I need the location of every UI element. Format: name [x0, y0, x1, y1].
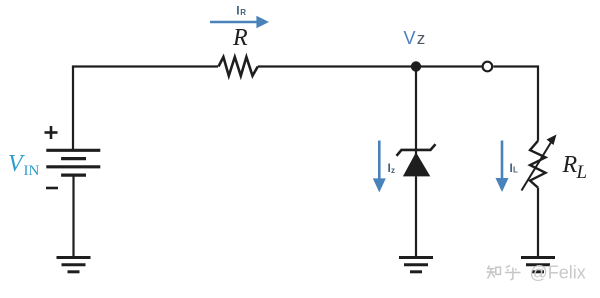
svg-text:R: R [562, 152, 578, 178]
svg-text:V: V [404, 28, 416, 48]
svg-text:I: I [236, 4, 239, 18]
svg-text:L: L [513, 165, 518, 174]
svg-text:@Felix: @Felix [530, 263, 586, 283]
svg-text:L: L [576, 162, 588, 183]
svg-text:R: R [240, 8, 246, 17]
svg-text:V: V [8, 151, 25, 177]
svg-text:IN: IN [24, 163, 40, 179]
svg-text:R: R [232, 25, 248, 51]
svg-text:z: z [391, 166, 395, 175]
svg-text:z: z [417, 29, 426, 48]
